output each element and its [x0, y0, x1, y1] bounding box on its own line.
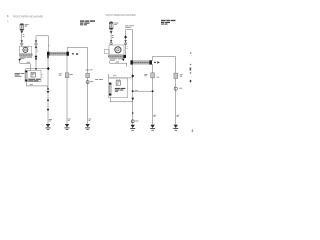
connector triangle on fuse wire [21, 40, 24, 42]
label left of connector x67 [59, 73, 62, 76]
connector circle on fuse wire [21, 43, 24, 46]
wire code near ground x152.6 [153, 114, 156, 117]
ground x67 [65, 124, 70, 130]
bar terminal right (black) [67, 52, 69, 56]
H2 wire to x132.7 column [108, 74, 132, 78]
wiper motor label [110, 58, 125, 60]
wire washer out down [19, 61, 21, 64]
wire code label [23, 34, 25, 37]
terminal square on x36 [35, 56, 37, 58]
washer motor box label [23, 46, 29, 49]
ground column x87.6 [87, 47, 89, 124]
crossbar tick x87.6 [86, 69, 90, 71]
wire H2 to ground column [25, 69, 48, 71]
junction diamond x48/H2 [47, 67, 50, 71]
svg-text:FRONT WIPER AND WASHER: FRONT WIPER AND WASHER [106, 14, 136, 17]
junction dot x132.7 low [132, 112, 134, 114]
label right of connector x67 [70, 73, 73, 76]
ground column x132.7 [132, 64, 134, 125]
junction dot x152.6 [152, 90, 154, 92]
H3 wire dot to x152.6 [133, 90, 153, 92]
bar terminal left (black) [130, 60, 133, 64]
label right of circle x175.7 [179, 87, 182, 90]
strip terminal top (black) [109, 83, 111, 85]
fuse WIPER (left) [20, 24, 24, 31]
label left of connector x152.6 [144, 73, 147, 76]
arrow below fuse (right) [110, 31, 113, 33]
wire code above [116, 61, 119, 64]
bridge 2 (right page) [152, 57, 175, 125]
arrow below fuse [20, 31, 23, 33]
wire code right page [112, 35, 114, 38]
inline connector x67 (gray box) [65, 73, 69, 78]
connector circle x87.6 [86, 81, 89, 84]
connector circle x175.7 [174, 87, 177, 90]
pin ticks x125.6 [126, 46, 128, 48]
splice dot right of bar [154, 62, 156, 64]
wire washer out horizontal [20, 64, 31, 71]
note text block (top right of left page) [80, 20, 95, 25]
fuse label right page [114, 23, 118, 25]
switch connector strip (hatched) [25, 71, 27, 81]
wiper switch box (right page) [109, 78, 128, 98]
wire fuse down (right) [110, 29, 112, 45]
switch output wire right page [110, 98, 132, 102]
wiper motor circle [115, 47, 121, 53]
connector triangle x125.6 [124, 40, 127, 42]
ground x132.7 [130, 125, 135, 130]
washer motor box [20, 46, 32, 54]
label right of circle x87.6 [90, 80, 93, 83]
note text block (top right of right page) [161, 20, 176, 25]
connector arrow x48 mid [47, 91, 50, 93]
wire under motor (left out) [110, 61, 127, 66]
strip terminal bottom (black) [25, 80, 27, 82]
wire code near ground x48 [49, 118, 52, 121]
wire code above H2 right [113, 74, 116, 77]
wiper motor sub-box left [104, 49, 109, 53]
junction diamond x132.7 [131, 74, 134, 77]
connector circle x125.6 [124, 43, 126, 45]
strip terminal top (black) [25, 71, 27, 73]
switch text inside box [28, 79, 40, 82]
wiper motor connector bar (hatched) [108, 55, 124, 58]
inline connector x87.6 (gray box) [86, 73, 90, 78]
wire code near ground x87.6 [88, 118, 91, 121]
ground x152.6 [150, 125, 155, 130]
switch label left of box [15, 73, 25, 77]
label right of connector x175.7 [180, 73, 183, 76]
label right of dot [135, 89, 138, 92]
switch contact symbol right page [116, 81, 120, 86]
switch connector strip right page [109, 83, 111, 96]
junction connector bar (right page, hatched) [131, 61, 152, 64]
connector circle x132.7 [131, 120, 134, 123]
arrow below motor bar right [122, 59, 125, 62]
top bridge wire (left) [36, 36, 48, 52]
wire fuse down [21, 31, 23, 47]
wire x125.6 motor feed [125, 35, 127, 55]
diamond x36 [35, 46, 37, 49]
junction dot x132.7 [132, 90, 134, 92]
ground column x67 [66, 55, 68, 124]
ground column (x48) [47, 55, 49, 124]
switch contact symbol [31, 72, 35, 77]
pin ticks x36 [37, 49, 39, 51]
switch text inside box right [115, 88, 126, 92]
switch output wire to ground column [26, 81, 47, 86]
top bridge wire (right) [126, 29, 133, 62]
bar terminal right (black) [149, 60, 152, 64]
arrow right of bar [76, 53, 78, 56]
fuse WIPER (right) [109, 22, 113, 30]
wire code near ground x67 [68, 118, 71, 121]
wire code above switch output [30, 83, 33, 86]
inline connector x175.7 (gray box) [174, 73, 178, 78]
label right of connector x152.6 [157, 76, 159, 79]
connector triangle on fuse wire (right) [110, 40, 113, 42]
junction dot x48 lower [47, 99, 49, 101]
diamond on x125.6 [124, 36, 127, 39]
connector circle on fuse wire (right) [110, 42, 113, 45]
washer motor connector bar (hatched) [20, 54, 33, 56]
connector arrow x132.7 [131, 98, 134, 101]
wire code near ground x175.7 [177, 114, 180, 117]
arrow washer motor output [18, 59, 21, 61]
washer motor label [20, 57, 32, 59]
strip terminal bottom (black) [109, 94, 111, 96]
bar terminal right (black) [123, 55, 126, 58]
arrow right of bar [157, 61, 159, 64]
ground x87.6 [85, 124, 90, 130]
ground x48 [46, 124, 51, 130]
connector circle on x36 [35, 43, 38, 46]
label right of circle [135, 120, 138, 123]
ground x175.7 [173, 125, 178, 130]
wire bar right end up [67, 47, 87, 52]
svg-text:2: 2 [192, 129, 194, 133]
ground column x152.6 [152, 64, 154, 125]
wire code above [27, 61, 30, 64]
arrow below bar [47, 56, 50, 58]
wiper feed wire (x36) [35, 40, 37, 71]
front wiper motor box [109, 45, 124, 55]
pin ticks right of switch box [41, 74, 43, 76]
wiper switch box (left page) [25, 71, 41, 82]
inline connector x152.6 (gray box) [151, 73, 155, 78]
switch label above left [95, 78, 98, 81]
bridge label (right) [125, 25, 134, 27]
bar terminal left (black) [47, 52, 49, 56]
junction dot x48 switch feed [47, 88, 49, 90]
arrow on x36 [35, 58, 37, 60]
washer motor circle M [23, 47, 28, 52]
connector triangle on x36 [35, 40, 38, 42]
junction dot x36/H2 [35, 68, 37, 70]
svg-text:FRONT WIPER AND WASHER: FRONT WIPER AND WASHER [13, 16, 43, 19]
connector arrow x48 [47, 109, 50, 112]
fuse label WIPER 20A [25, 24, 29, 26]
splice dot right of bar [72, 53, 74, 55]
connector ticks on right leg [49, 44, 51, 46]
junction connector bar (left page, hatched) [47, 52, 68, 55]
